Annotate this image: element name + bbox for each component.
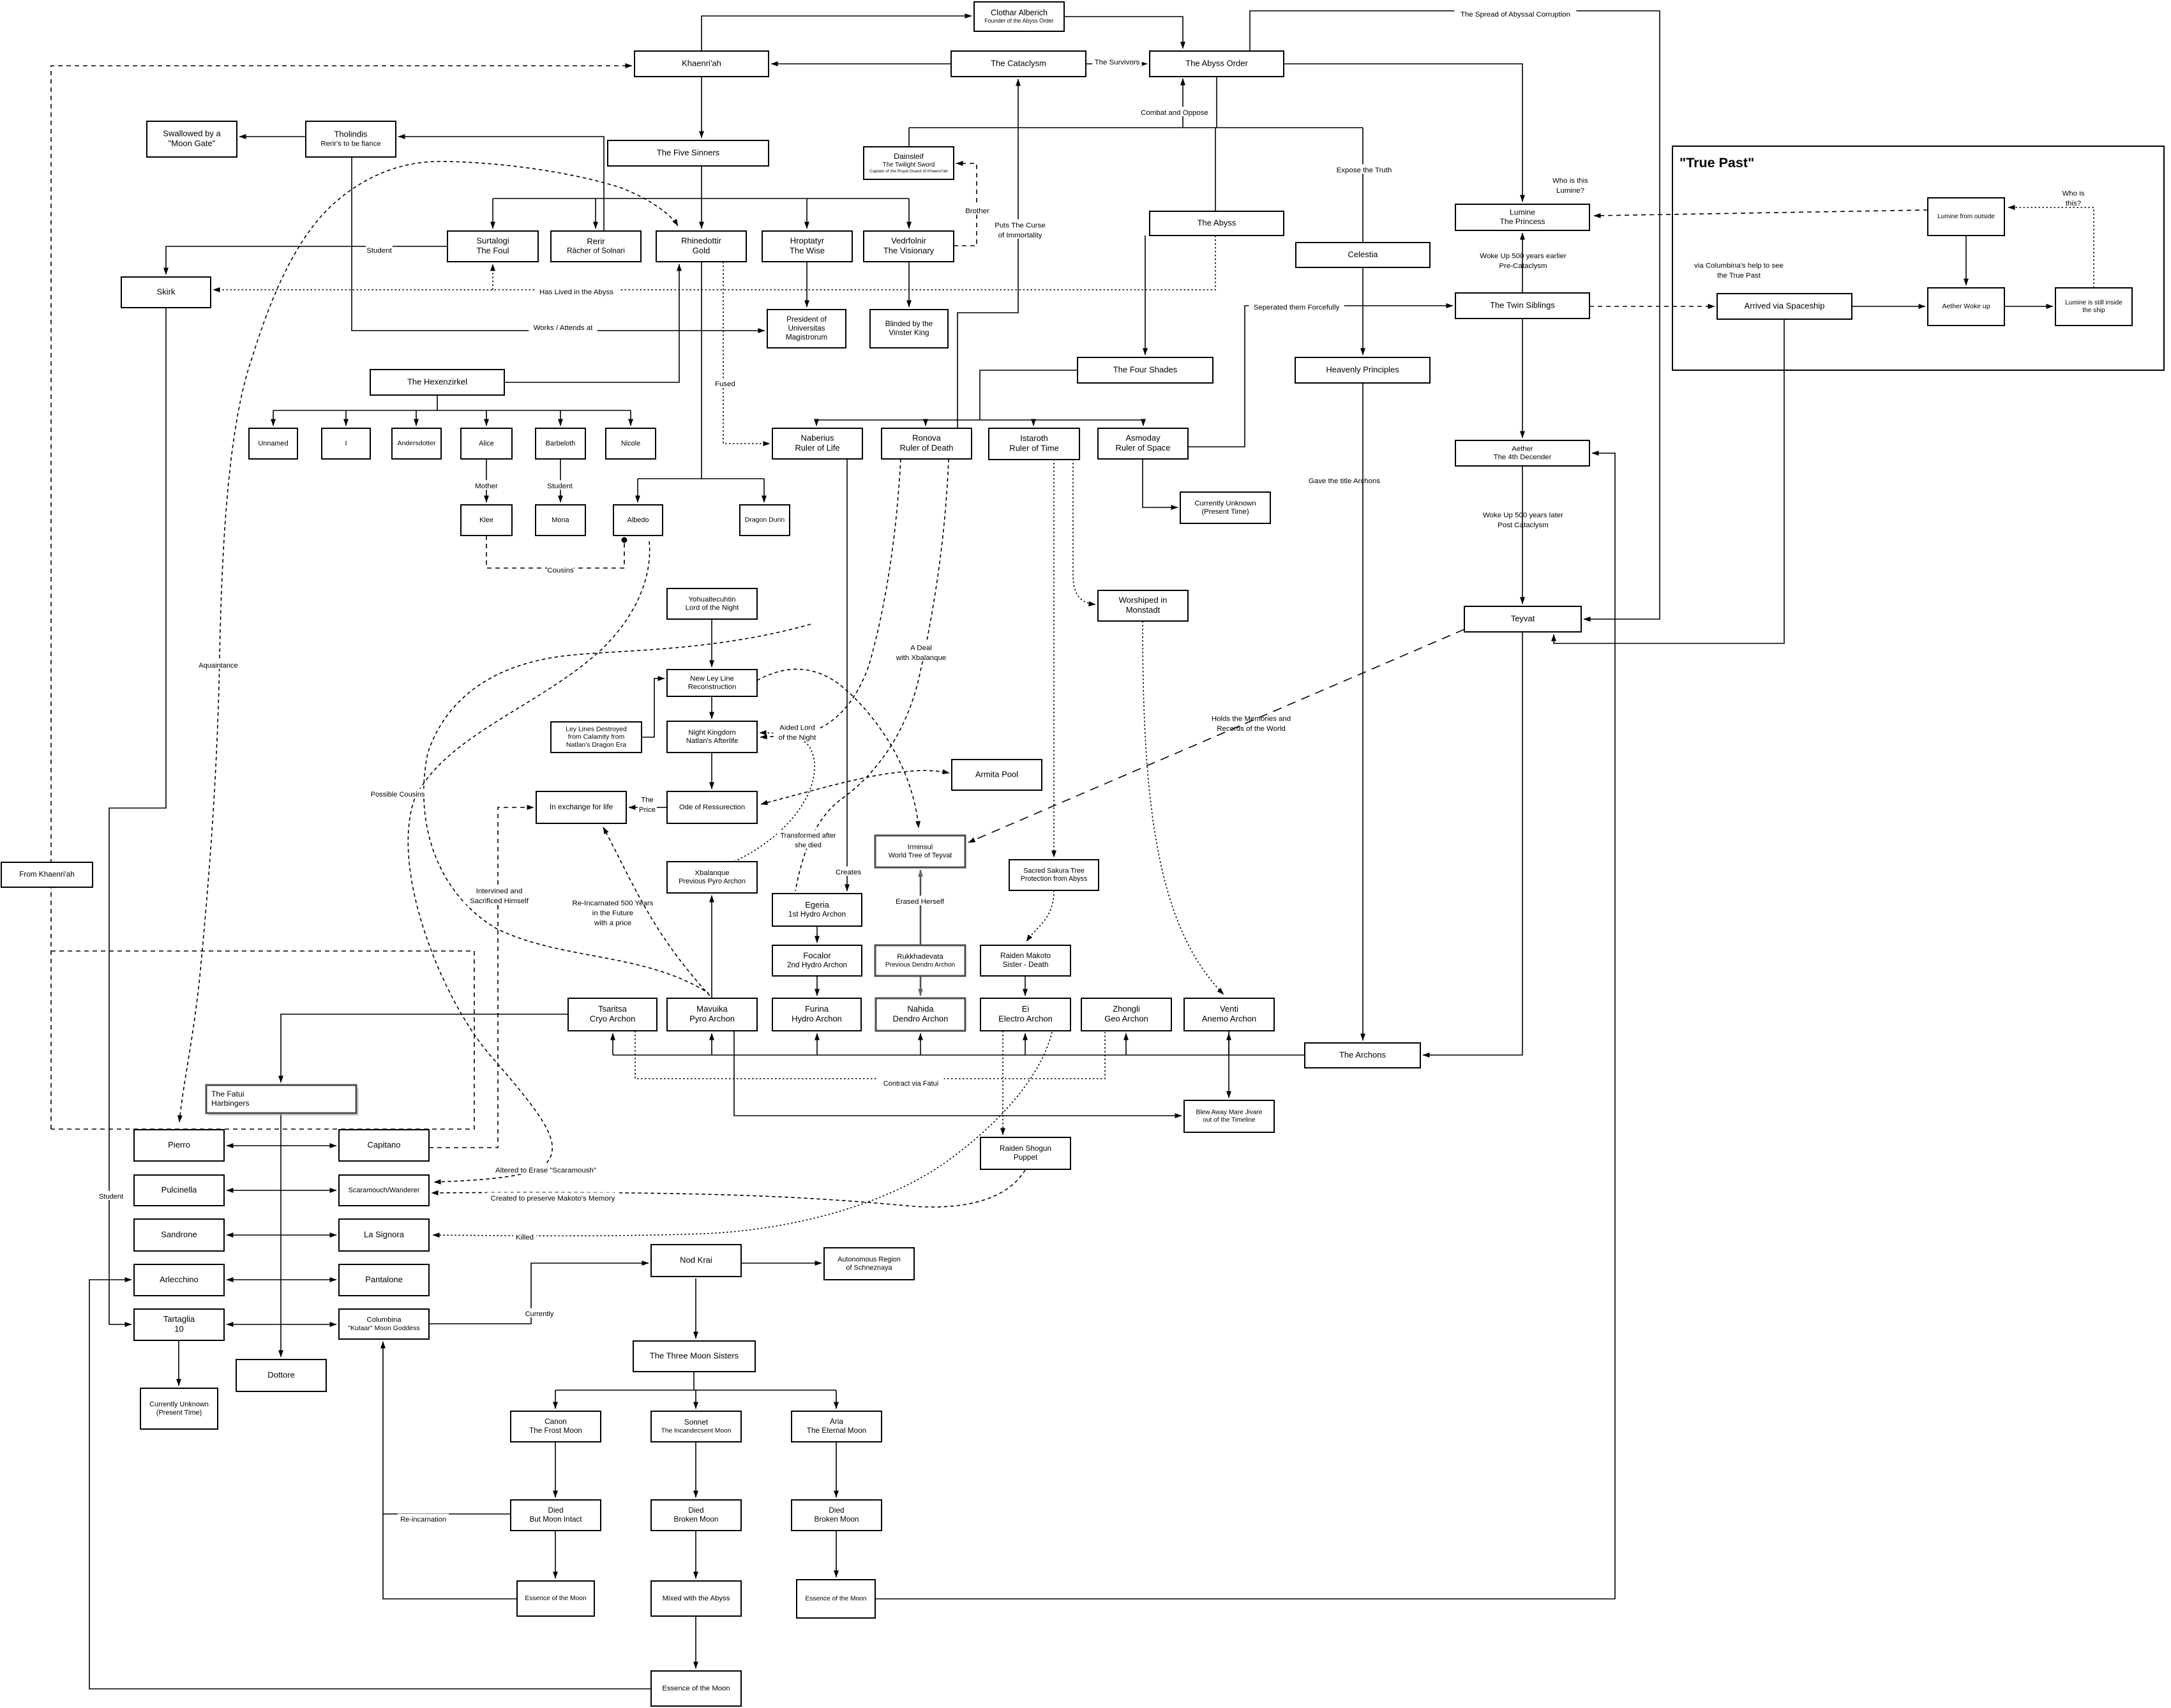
- wire Skirk student line: [109, 308, 166, 1324]
- svg-text:The Four Shades: The Four Shades: [1113, 364, 1178, 374]
- wire Hexenzirkel to Rhinedottir: [504, 264, 679, 382]
- wire bus to Surtalogi: [492, 199, 493, 228]
- box Blew Away Mare Jivare: [1184, 1100, 1274, 1132]
- svg-text:Currently Unknown: Currently Unknown: [1194, 500, 1256, 507]
- box Nod Krai: [651, 1245, 741, 1277]
- wire aether woke to lumine ship: [2004, 306, 2053, 307]
- wire bus to Alice: [486, 410, 487, 426]
- svg-text:Blew Away Mare Jivare: Blew Away Mare Jivare: [1196, 1109, 1263, 1116]
- box Dragon Durin: [740, 505, 790, 536]
- svg-text:1st Hydro Archon: 1st Hydro Archon: [788, 910, 846, 918]
- box Autonomous Region of Schneznaya: [824, 1248, 914, 1280]
- svg-text:Armita Pool: Armita Pool: [975, 769, 1018, 779]
- svg-text:Mixed with the Abyss: Mixed with the Abyss: [663, 1594, 730, 1602]
- svg-text:Killed: Killed: [516, 1234, 534, 1241]
- wire bus to Aria: [836, 1390, 837, 1409]
- svg-text:Pyro Archon: Pyro Archon: [689, 1014, 735, 1024]
- box The Cataclysm: [951, 51, 1086, 77]
- box Arrived via Spaceship: [1717, 294, 1852, 319]
- wire combat to Abyss Order: [1182, 79, 1183, 128]
- svg-text:Lumine?: Lumine?: [1556, 187, 1584, 195]
- svg-text:In exchange for life: In exchange for life: [550, 803, 613, 811]
- wire bus to Tsaritsa: [612, 1033, 613, 1055]
- label Brother: [964, 205, 991, 215]
- label Erased Herself: [893, 895, 947, 906]
- wire Nod Krai to Three Moons: [695, 1278, 696, 1338]
- svg-text:the ship: the ship: [2082, 307, 2105, 314]
- svg-text:Worshiped in: Worshiped in: [1119, 596, 1168, 605]
- svg-text:out of the Timeline: out of the Timeline: [1203, 1117, 1256, 1124]
- svg-text:The Foul: The Foul: [476, 246, 509, 255]
- wire possible cousins altered curve: [408, 541, 649, 1182]
- wire lumine outside to aether woke: [1965, 236, 1967, 285]
- wire ronova deal egeria: [795, 459, 949, 891]
- svg-text:Teyvat: Teyvat: [1511, 613, 1535, 623]
- wire bus to Rerir: [595, 199, 596, 228]
- box Asmoday: [1098, 428, 1188, 459]
- svg-text:New Ley Line: New Ley Line: [690, 675, 734, 682]
- box Columbina: [339, 1309, 429, 1339]
- wire ei to raiden shogun: [1002, 1031, 1003, 1135]
- svg-text:Aria: Aria: [830, 1418, 843, 1426]
- wire bus to Nahida: [920, 1033, 921, 1055]
- wire twins to arrived dashed: [1589, 306, 1715, 307]
- wire ode armita double: [761, 770, 949, 804]
- wire ronova mavuika curve: [424, 624, 811, 993]
- label Creates: [835, 866, 862, 876]
- label Contract via Fatui: [878, 1078, 943, 1088]
- label Expose the Truth: [1333, 164, 1395, 174]
- svg-text:Re-Incarnated 500 Years: Re-Incarnated 500 Years: [573, 900, 654, 908]
- label Created to preserve Makoto's Memory: [486, 1192, 620, 1202]
- svg-text:The Twilight Sword: The Twilight Sword: [883, 161, 935, 169]
- wire rukkha erased to irminsul: [920, 870, 922, 945]
- svg-text:from Calamity from: from Calamity from: [568, 733, 625, 741]
- svg-text:Geo Archon: Geo Archon: [1104, 1014, 1148, 1024]
- box Yohualtecuhtin: [667, 588, 757, 619]
- box The Archons: [1305, 1043, 1420, 1068]
- wire created to preserve makoto: [432, 1170, 1025, 1207]
- box Pulcinella: [134, 1175, 224, 1206]
- wire Asmoday to Twin Siblings: [1188, 306, 1453, 447]
- svg-text:Sandrone: Sandrone: [161, 1229, 197, 1239]
- box Ronova: [882, 428, 972, 459]
- label The Survivors: [1092, 56, 1142, 66]
- junction dot cousins at Albedo: [622, 537, 627, 543]
- wire Venti to Blew Away: [1228, 1031, 1229, 1098]
- wire arrived to aether woke: [1852, 306, 1925, 307]
- svg-text:The Wise: The Wise: [790, 246, 825, 255]
- wire abyss to Surtalogi riser: [492, 264, 493, 290]
- wire The Abyss to Four Shades: [1145, 236, 1146, 355]
- wire worshiped to venti: [1143, 621, 1224, 994]
- label Puts The Curse: [993, 220, 1047, 239]
- svg-text:Lord of the Night: Lord of the Night: [686, 604, 740, 612]
- box I: [322, 428, 370, 459]
- wire bus to Rhinedottir: [701, 199, 702, 228]
- wire Fatui to Dottore: [280, 1113, 282, 1357]
- svg-text:Raiden Shogun: Raiden Shogun: [1000, 1144, 1051, 1153]
- box Zhongli: [1081, 998, 1171, 1031]
- wire Surtalogi student to Skirk: [166, 246, 447, 274]
- svg-text:Andersdotter: Andersdotter: [397, 440, 436, 447]
- label Seperated them Forcefully: [1249, 301, 1344, 311]
- wire bus to Vedrfolnir: [908, 199, 910, 228]
- label The Spread of Abyssal Corruption: [1455, 8, 1577, 19]
- box Essence of the Moon bottom: [651, 1671, 741, 1706]
- svg-text:of the Night: of the Night: [779, 734, 816, 742]
- wire essence aria to Aether 4th: [875, 453, 1615, 1599]
- box Aether The 4th Decender: [1455, 440, 1589, 466]
- svg-text:Rukkhadevata: Rukkhadevata: [897, 953, 943, 961]
- svg-text:Tsaritsa: Tsaritsa: [598, 1004, 627, 1014]
- svg-text:Columbina: Columbina: [366, 1316, 402, 1324]
- box Andersdotter: [392, 428, 441, 459]
- box The Four Shades: [1078, 357, 1213, 383]
- box Tartaglia 10: [134, 1309, 224, 1340]
- box Swallowed by a Moon Gate: [147, 121, 237, 157]
- svg-text:The: The: [641, 796, 654, 804]
- svg-text:Ruler of Time: Ruler of Time: [1009, 444, 1058, 453]
- box Ode of Ressurection: [667, 791, 757, 823]
- svg-text:(Present Time): (Present Time): [156, 1409, 202, 1416]
- box Khaenri'ah: [635, 51, 769, 77]
- wire Essence bottom to Arlecchino: [89, 1280, 651, 1689]
- svg-text:Aether: Aether: [1512, 445, 1533, 453]
- svg-text:Rerir's to be fiance: Rerir's to be fiance: [320, 140, 380, 148]
- wire Abyss Order to Lumine: [1284, 64, 1522, 202]
- box Mavuika: [667, 998, 757, 1031]
- wire bus to Ronova: [925, 420, 926, 426]
- label Re-incarnation: [398, 1514, 449, 1524]
- box Focalor: [772, 945, 862, 976]
- svg-text:Asmoday: Asmoday: [1125, 433, 1161, 443]
- svg-text:Who is this: Who is this: [1552, 177, 1588, 184]
- wire Rerir to Tholindis: [398, 137, 604, 231]
- box Sonnet: [651, 1411, 741, 1442]
- svg-text:Protection from Abyss: Protection from Abyss: [1021, 875, 1088, 883]
- frame True Past: [1672, 146, 2164, 370]
- wire Tartaglia Columbina: [227, 1324, 336, 1325]
- box From Khaenri'ah: [1, 862, 93, 887]
- box Albedo: [613, 505, 663, 536]
- wire Yohualtecuhtin to New Ley: [711, 619, 712, 667]
- svg-text:Erased Herself: Erased Herself: [896, 898, 945, 906]
- svg-text:Has Lived in the Abyss: Has Lived in the Abyss: [539, 288, 613, 296]
- svg-text:Khaenri'ah: Khaenri'ah: [682, 58, 721, 68]
- wire Heavenly to Archons: [1362, 383, 1363, 1040]
- svg-text:Hroptatyr: Hroptatyr: [790, 236, 825, 246]
- box Worshiped in Monstadt: [1098, 590, 1188, 621]
- svg-text:Ronova: Ronova: [912, 433, 942, 443]
- box Celestia: [1296, 243, 1430, 267]
- svg-text:Celestia: Celestia: [1348, 250, 1378, 259]
- box Nahida: [876, 998, 965, 1031]
- svg-text:Tholindis: Tholindis: [334, 130, 368, 139]
- box Night Kingdom: [667, 721, 757, 753]
- svg-text:Albedo: Albedo: [627, 516, 649, 524]
- box Died Broken Moon aria: [792, 1500, 882, 1531]
- wire sakura to makoto: [1026, 890, 1054, 941]
- wire Alice to Klee: [486, 459, 487, 502]
- box Alice: [461, 428, 512, 459]
- label Student: [366, 244, 393, 255]
- label Killed: [513, 1231, 536, 1241]
- box Rhinedottir: [656, 231, 746, 262]
- wire bus to Dragon Durin: [763, 479, 765, 502]
- wire Tartaglia to Currently Unknown: [178, 1340, 179, 1386]
- wire Asmoday to Currently Unknown: [1143, 459, 1178, 507]
- svg-text:The Five Sinners: The Five Sinners: [657, 147, 720, 157]
- box Hroptatyr: [762, 231, 852, 262]
- box Lumine is still inside the ship: [2055, 288, 2132, 326]
- box Ei: [980, 998, 1070, 1031]
- wire Pierro Capitano: [227, 1145, 336, 1146]
- box Aether Woke up: [1928, 288, 2004, 326]
- wire bus to Ei: [1025, 1033, 1026, 1055]
- svg-text:Seperated them Forcefully: Seperated them Forcefully: [1254, 304, 1340, 311]
- box The Abyss: [1150, 211, 1284, 236]
- box Sandrone: [134, 1219, 224, 1251]
- svg-text:Arrived via Spaceship: Arrived via Spaceship: [1745, 301, 1825, 310]
- wire rhine bus: [638, 478, 764, 479]
- box Xbalanque: [667, 862, 757, 893]
- label Aided Lord: [774, 722, 820, 742]
- svg-text:with a price: with a price: [594, 920, 631, 927]
- label Transformed after: [777, 830, 839, 849]
- svg-text:Swallowed by a: Swallowed by a: [163, 129, 221, 139]
- wire bus to Mavuika: [711, 1033, 712, 1055]
- label Holds the Memories and: [1212, 715, 1291, 733]
- wire ronova aided night kingdom: [760, 459, 901, 737]
- svg-text:A Deal: A Deal: [910, 644, 932, 652]
- wire Focalor to Furina: [816, 976, 818, 996]
- wire fused dotted: [723, 262, 770, 444]
- svg-text:Brother: Brother: [965, 207, 989, 215]
- svg-text:Aether Woke up: Aether Woke up: [1942, 303, 1990, 310]
- svg-text:Clothar Alberich: Clothar Alberich: [991, 8, 1048, 17]
- wire bus to Sonnet: [695, 1390, 696, 1409]
- wire Ode to In exchange price: [629, 807, 667, 808]
- box Arlecchino: [134, 1264, 224, 1296]
- box Furina: [772, 998, 861, 1031]
- svg-text:Pantalone: Pantalone: [365, 1275, 403, 1284]
- svg-text:Ode of Ressurection: Ode of Ressurection: [679, 804, 745, 811]
- label Aquaintance: [198, 660, 238, 670]
- box Tholindis: [306, 121, 396, 157]
- wire bus to Zhongli: [1125, 1033, 1127, 1055]
- box Sacred Sakura Tree: [1009, 860, 1099, 890]
- svg-text:The Twin Siblings: The Twin Siblings: [1490, 300, 1555, 310]
- svg-text:Sister - Death: Sister - Death: [1003, 961, 1049, 969]
- wire Khaenri'ah top to Clothar: [702, 16, 972, 51]
- box Rukkhadevata: [875, 945, 965, 976]
- svg-text:Pierro: Pierro: [168, 1140, 190, 1150]
- svg-text:The Three Moon Sisters: The Three Moon Sisters: [650, 1351, 739, 1360]
- svg-text:Venti: Venti: [1220, 1004, 1238, 1014]
- svg-text:Transformed after: Transformed after: [780, 832, 836, 839]
- svg-text:Scaramouch/Wanderer: Scaramouch/Wanderer: [349, 1187, 420, 1194]
- svg-text:Raiden Makoto: Raiden Makoto: [1000, 952, 1051, 960]
- wire aquaintance curve Pierro to Rhinedottir: [179, 161, 678, 1122]
- svg-text:Harbingers: Harbingers: [211, 1098, 250, 1107]
- svg-text:The Eternal Moon: The Eternal Moon: [807, 1427, 866, 1435]
- wire Five Sinners to sinners bus: [701, 166, 702, 199]
- svg-text:Capitano: Capitano: [367, 1140, 400, 1150]
- wire bus to Albedo: [637, 479, 638, 502]
- wire Three Moons to moon bus: [693, 1372, 695, 1390]
- svg-text:Vinster King: Vinster King: [889, 329, 929, 337]
- box Rerir: [551, 231, 641, 262]
- svg-text:Currently: Currently: [525, 1310, 554, 1318]
- svg-text:Dainsleif: Dainsleif: [894, 152, 924, 161]
- svg-text:Rerir: Rerir: [587, 236, 605, 246]
- wire Tsaritsa to Fatui: [281, 1014, 568, 1082]
- box In exchange for life: [536, 791, 626, 823]
- wire Celestia to Heavenly Principles: [1362, 267, 1363, 355]
- svg-text:Nahida: Nahida: [907, 1004, 934, 1014]
- svg-text:Dragon Durin: Dragon Durin: [745, 516, 785, 524]
- wire Nod Krai to Autonomous: [741, 1262, 822, 1264]
- box Clothar Alberich: [974, 2, 1064, 31]
- svg-text:Irminsul: Irminsul: [908, 844, 933, 851]
- wire bus to Naberius: [816, 420, 817, 426]
- svg-text:Previous Dendro Archon: Previous Dendro Archon: [885, 961, 955, 968]
- svg-text:Mother: Mother: [475, 483, 498, 490]
- svg-text:Monstadt: Monstadt: [1126, 605, 1161, 615]
- svg-text:Essence of the Moon: Essence of the Moon: [805, 1596, 866, 1603]
- wire Abyss Order to The Abyss: [1216, 76, 1217, 128]
- wire Cataclysm to Abyss Order: [1086, 63, 1147, 64]
- wire new ley to irminsul: [757, 669, 919, 828]
- label Re-Incarnated 500 Years: [573, 900, 654, 927]
- svg-text:Unnamed: Unnamed: [258, 440, 288, 447]
- svg-text:Natlan's Afterlife: Natlan's Afterlife: [686, 737, 739, 745]
- wire killed dotted: [433, 1032, 1052, 1236]
- wire brother dashed: [954, 163, 977, 246]
- wire sinners bus: [493, 198, 909, 199]
- svg-text:Creates: Creates: [836, 869, 861, 876]
- svg-text:The Abyss Order: The Abyss Order: [1185, 58, 1248, 68]
- shadow of Fatui Harbingers box: [209, 1088, 359, 1116]
- wire istaroth to worshiped: [1073, 459, 1095, 604]
- label Woke Up 500 years later: [1483, 511, 1563, 529]
- box The Three Moon Sisters: [633, 1341, 755, 1372]
- box The Abyss Order: [1150, 51, 1284, 77]
- svg-text:Lumine: Lumine: [1510, 208, 1535, 217]
- svg-text:Skirk: Skirk: [157, 287, 176, 296]
- svg-text:Aided Lord: Aided Lord: [779, 724, 815, 731]
- wire bus to Hroptatyr: [806, 199, 808, 228]
- svg-text:The Incandecsent Moon: The Incandecsent Moon: [661, 1428, 732, 1435]
- wire Hexenzirkel to witch bus: [437, 395, 438, 410]
- label Who is this: [1552, 177, 1588, 195]
- label Student: [546, 480, 573, 490]
- wire Vedrfolnir to Blinded: [908, 262, 910, 307]
- box Egeria: [772, 894, 862, 926]
- wire bus to I: [345, 410, 347, 426]
- label The: [638, 794, 657, 814]
- svg-text:Egeria: Egeria: [805, 900, 829, 910]
- wire margin dashed rect: [51, 951, 474, 1129]
- svg-text:Price: Price: [639, 806, 656, 814]
- box Skirk: [121, 277, 211, 308]
- box Currently Unknown bottom: [140, 1388, 218, 1429]
- box Venti: [1184, 998, 1274, 1031]
- svg-text:Vedrfolnir: Vedrfolnir: [891, 236, 927, 246]
- wire Khaenri'ah to Five Sinners: [701, 77, 702, 138]
- svg-text:Alice: Alice: [479, 440, 494, 447]
- wire margin dashed khaenriah: [51, 66, 632, 1129]
- wire bus to Istaroth: [1033, 420, 1034, 426]
- svg-text:she died: she died: [795, 841, 822, 849]
- svg-text:Cousins: Cousins: [547, 567, 574, 574]
- label Intervined and: [465, 885, 533, 905]
- label Cousins: [547, 564, 574, 574]
- box Dottore: [236, 1360, 326, 1391]
- svg-text:Intervined and: Intervined and: [476, 887, 523, 895]
- box President of Universitas Magistrorum: [767, 310, 846, 348]
- label Fused: [715, 378, 735, 388]
- svg-text:Cryo Archon: Cryo Archon: [590, 1014, 636, 1024]
- svg-text:Student: Student: [366, 247, 392, 255]
- box Pantalone: [339, 1264, 429, 1296]
- svg-text:Puts The Curse: Puts The Curse: [995, 221, 1045, 229]
- box Raiden Shogun Puppet: [980, 1137, 1070, 1169]
- svg-text:Ruler of Space: Ruler of Space: [1115, 443, 1170, 453]
- box Essence of the Moon aria: [797, 1580, 875, 1618]
- label via Columbina's help to see: [1694, 262, 1784, 280]
- wire Re-incarnation riser: [383, 1342, 517, 1599]
- svg-text:this?: this?: [2066, 200, 2081, 207]
- wire aided lord dotted: [734, 733, 815, 862]
- label Has Lived in the Abyss: [534, 286, 618, 296]
- label Who is: [2062, 190, 2084, 207]
- wire Tholindis to Swallowed: [239, 136, 306, 137]
- label Woke Up 500 years earlier: [1480, 252, 1566, 270]
- svg-text:The Frost Moon: The Frost Moon: [529, 1427, 582, 1435]
- label A Deal: [894, 642, 948, 662]
- svg-text:Sacrificed Himself: Sacrificed Himself: [470, 897, 529, 905]
- svg-text:Pulcinella: Pulcinella: [162, 1185, 197, 1194]
- label Mother: [475, 480, 498, 490]
- svg-text:of Schneznaya: of Schneznaya: [846, 1264, 892, 1271]
- svg-text:"True Past": "True Past": [1679, 155, 1754, 170]
- box Pierro: [134, 1130, 224, 1161]
- svg-text:Essence of the Moon: Essence of the Moon: [662, 1684, 730, 1692]
- box Nicole: [606, 428, 656, 459]
- svg-text:Dendro Archon: Dendro Archon: [893, 1014, 949, 1024]
- label Altered to Erase "Scaramoush": [491, 1164, 601, 1174]
- wire Night Kingdom to Ode: [711, 753, 712, 789]
- svg-text:Rhinedottir: Rhinedottir: [681, 236, 722, 246]
- svg-text:Istaroth: Istaroth: [1020, 433, 1048, 443]
- wire spread corruption line: [1250, 11, 1660, 619]
- svg-text:The Survivors: The Survivors: [1095, 59, 1140, 66]
- box Tsaritsa: [568, 998, 657, 1031]
- box Istaroth: [989, 428, 1079, 460]
- svg-text:Re-incarnation: Re-incarnation: [400, 1516, 446, 1524]
- svg-text:Aquaintance: Aquaintance: [199, 662, 237, 670]
- svg-text:Hydro Archon: Hydro Archon: [792, 1014, 842, 1024]
- box The Fatui Harbingers: [206, 1085, 356, 1113]
- svg-text:Universitas: Universitas: [788, 324, 825, 333]
- svg-text:The Fatui: The Fatui: [211, 1090, 244, 1098]
- wire Barbeloth to Mona: [560, 459, 561, 502]
- wire Mixed to Essence bottom: [695, 1616, 696, 1668]
- svg-text:Possible Cousins: Possible Cousins: [371, 791, 425, 798]
- svg-text:Natlan's Dragon Era: Natlan's Dragon Era: [566, 741, 626, 749]
